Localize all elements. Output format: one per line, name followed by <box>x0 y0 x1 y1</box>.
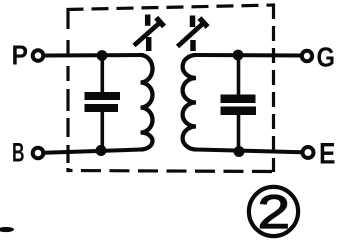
wire: C2 bottom stem <box>237 113 241 152</box>
dashed enclosure box: top edge <box>67 5 276 10</box>
svg-text:B: B <box>12 138 25 168</box>
wire: bottom-right rail, L2 to E terminal <box>196 150 302 153</box>
adjustable slug bar of L2 <box>190 16 196 52</box>
svg-text:2: 2 <box>258 186 290 238</box>
adjustment arrow of L1 <box>134 18 164 46</box>
terminal circle G <box>302 51 312 61</box>
adjustable slug bar of L1 <box>148 15 149 52</box>
junction node bottom-right <box>234 146 245 157</box>
figure number circle <box>249 187 298 236</box>
capacitor C1 <box>85 92 121 112</box>
junction node top-left <box>97 50 108 61</box>
wire: C2 top stem <box>237 55 241 96</box>
terminal circle P <box>33 50 44 61</box>
svg-text:E: E <box>319 138 336 171</box>
capacitor C2 <box>221 95 257 116</box>
wire: B terminal to node B (bottom-left rail) <box>44 150 141 153</box>
wire: C1 top stem <box>101 56 105 94</box>
wire: C1 bottom stem <box>101 111 105 151</box>
inductor L1 (left winding) <box>141 55 153 150</box>
wire: top-right rail, L2 to G terminal <box>196 53 302 58</box>
terminal circle E <box>303 147 314 158</box>
dashed enclosure box: right edge <box>272 4 275 172</box>
svg-text:P: P <box>12 40 29 71</box>
dashed enclosure box: left edge <box>66 9 69 172</box>
junction node bottom-left <box>96 145 107 156</box>
junction node top-right <box>233 50 244 61</box>
svg-text:G: G <box>317 42 336 73</box>
inductor L2 (right winding) <box>183 55 196 150</box>
dashed enclosure box: bottom edge <box>67 171 275 172</box>
terminal circle B <box>33 148 44 159</box>
adjustment arrow of L2 <box>178 18 208 46</box>
wire: P terminal to node A (top-left rail) <box>44 53 141 58</box>
